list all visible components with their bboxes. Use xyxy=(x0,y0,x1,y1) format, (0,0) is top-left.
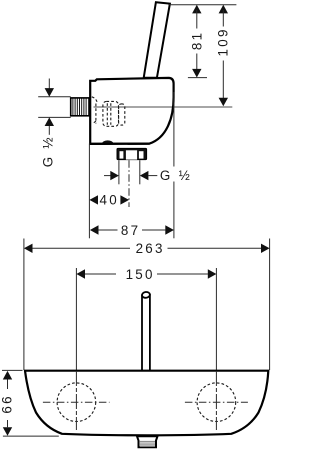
svg-text:66: 66 xyxy=(0,394,15,414)
spout tube (front view) xyxy=(142,291,151,370)
wire: left long extension line xyxy=(88,144,90,239)
body (front view) xyxy=(25,371,268,436)
svg-text:81: 81 xyxy=(190,31,205,51)
porthole left xyxy=(43,371,110,430)
dimension 109 xyxy=(216,5,231,107)
svg-text:G ½: G ½ xyxy=(40,135,55,167)
dimension G1/2 bottom xyxy=(104,168,192,183)
body (side view) xyxy=(90,78,173,144)
hidden cartridge dashed xyxy=(92,97,125,127)
svg-text:87: 87 xyxy=(121,223,141,238)
dimension 263 xyxy=(24,241,270,256)
wire: outlet centerline xyxy=(128,160,130,207)
wire: G1/2 outlet extension lines xyxy=(118,160,120,184)
dimension 40 xyxy=(89,193,129,208)
screw dome on bottom xyxy=(102,140,113,143)
porthole right xyxy=(185,371,248,430)
dimension G1/2 left xyxy=(40,79,55,168)
dimension 81 xyxy=(188,5,207,78)
svg-text:109: 109 xyxy=(216,27,231,56)
wire: right extension line xyxy=(173,92,175,167)
lever handle (side view) xyxy=(144,2,170,78)
dimension 66 xyxy=(0,370,59,436)
wire: inlet pipe extension lines xyxy=(38,96,70,98)
svg-text:40: 40 xyxy=(100,193,120,208)
wire: inlet centerline / 109 extension xyxy=(94,106,233,108)
wire: bottom edge reinforce xyxy=(90,143,149,145)
dimension 87 xyxy=(90,223,174,238)
aerator (front view) xyxy=(137,436,158,447)
dimension 150 xyxy=(76,267,216,282)
wire: 150 extension lines xyxy=(75,268,77,370)
svg-text:150: 150 xyxy=(126,267,155,282)
wire: top extension line xyxy=(168,4,236,6)
outlet nut xyxy=(117,148,147,159)
wire: 263 extension lines xyxy=(23,239,25,371)
thread hatch G1/2 inlet xyxy=(71,98,89,116)
svg-text:G ½: G ½ xyxy=(160,168,192,183)
svg-text:263: 263 xyxy=(136,241,165,256)
